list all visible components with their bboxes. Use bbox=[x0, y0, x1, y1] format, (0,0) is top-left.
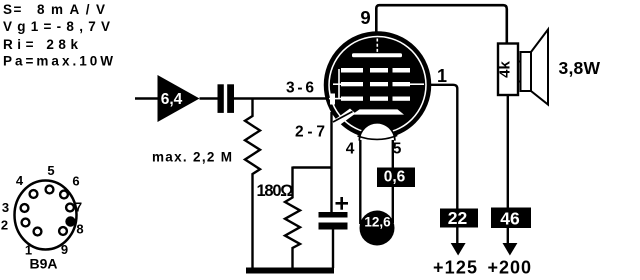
heater loop dome bbox=[359, 123, 395, 141]
capacitor C1 coupling bbox=[218, 84, 224, 113]
wire pin 9 anode to output transformer bbox=[376, 5, 507, 43]
svg-text:9: 9 bbox=[61, 242, 68, 257]
base pin 9 bbox=[59, 227, 67, 235]
wire heater pin 5 bbox=[392, 140, 394, 223]
base pin 8 (marked) bbox=[65, 216, 75, 226]
svg-text:2-7: 2-7 bbox=[295, 124, 325, 141]
current box 22 mA bbox=[440, 209, 478, 228]
cathode lead gap bbox=[334, 109, 356, 126]
signal source triangle 6,4 V input bbox=[158, 75, 200, 122]
grid g2 lead to pin 1 bbox=[410, 83, 424, 85]
svg-text:4: 4 bbox=[346, 141, 355, 158]
svg-text:5: 5 bbox=[393, 141, 402, 158]
svg-text:5: 5 bbox=[47, 163, 54, 178]
speaker cone bbox=[531, 30, 548, 105]
wire capacitor to ground bbox=[332, 230, 334, 269]
base pin 6 bbox=[60, 191, 68, 199]
polarity + sign bbox=[336, 197, 349, 210]
speaker driver bbox=[521, 52, 532, 91]
arrow to +200 bbox=[503, 243, 518, 256]
tube envelope thin edge across dome bbox=[358, 135, 398, 139]
anode lead to pin 9 (dashed) bbox=[376, 39, 378, 54]
speaker stubs bbox=[518, 61, 521, 63]
svg-text:9: 9 bbox=[360, 7, 370, 28]
svg-text:S=: S= bbox=[3, 2, 23, 17]
heater current box 0,6 bbox=[377, 168, 415, 188]
svg-text:2: 2 bbox=[1, 218, 8, 233]
wire heater pin 4 bbox=[359, 140, 361, 224]
base pin 3 bbox=[21, 204, 29, 212]
grid side link bbox=[338, 69, 340, 99]
base pin 7 bbox=[66, 204, 74, 212]
svg-text:4: 4 bbox=[16, 173, 24, 188]
svg-text:6: 6 bbox=[72, 174, 79, 189]
ground bus bbox=[246, 268, 334, 274]
base pin 4 bbox=[30, 190, 38, 198]
svg-text:12,6: 12,6 bbox=[364, 215, 391, 230]
grid g1 lead exiting left bbox=[330, 94, 335, 105]
resistor R2 cathode 180 ohm bbox=[285, 167, 300, 269]
grid g3 row dashes bbox=[341, 68, 410, 73]
svg-text:8: 8 bbox=[76, 222, 83, 237]
wire triangle to coupling capacitor bbox=[200, 97, 218, 99]
heater voltage circle 12,6 bbox=[360, 211, 395, 246]
cathode bar bbox=[352, 109, 404, 114]
grid g1 row dashes bbox=[341, 97, 410, 101]
tube V1 electrode block bbox=[330, 37, 425, 132]
svg-text:3,8W: 3,8W bbox=[559, 58, 601, 78]
current box 46 mA bbox=[491, 208, 531, 229]
wire transformer to +200 bbox=[507, 95, 509, 244]
wire input lead bbox=[135, 97, 158, 99]
svg-text:0,6: 0,6 bbox=[384, 169, 406, 186]
capacitor C2 cathode bypass bbox=[319, 212, 348, 218]
svg-text:4k: 4k bbox=[497, 61, 514, 78]
tube V1 envelope circle bbox=[326, 34, 429, 137]
svg-text:Vg1=-8,7V: Vg1=-8,7V bbox=[3, 19, 110, 34]
svg-text:6,4: 6,4 bbox=[161, 91, 183, 108]
svg-text:180Ω: 180Ω bbox=[257, 182, 294, 200]
wire pin 1 screen grid to +125 bbox=[429, 85, 457, 244]
base pin 1 bbox=[34, 228, 42, 236]
svg-text:B9A: B9A bbox=[29, 256, 57, 272]
wire capacitor to grid pins 3-6 bbox=[234, 97, 327, 99]
svg-text:1: 1 bbox=[437, 66, 447, 86]
svg-text:22: 22 bbox=[448, 208, 468, 228]
base pin 5 bbox=[46, 186, 54, 194]
svg-text:+125: +125 bbox=[433, 258, 477, 278]
svg-text:7: 7 bbox=[75, 200, 82, 215]
svg-text:46: 46 bbox=[500, 209, 520, 229]
output transformer 4k bbox=[498, 44, 518, 96]
wire cathode branch to R2 bbox=[293, 166, 332, 168]
svg-text:+200: +200 bbox=[488, 258, 532, 278]
svg-text:Pa=max.10W: Pa=max.10W bbox=[3, 54, 113, 69]
base pin 2 bbox=[22, 219, 30, 227]
tube base B9A outline bbox=[15, 181, 77, 250]
svg-text:3: 3 bbox=[2, 200, 9, 215]
resistor R1 grid leak max. 2,2 M bbox=[245, 99, 260, 269]
wire cathode pins 2-7 down bbox=[330, 112, 332, 213]
cathode lead bbox=[333, 112, 353, 123]
arrow to +125 bbox=[451, 243, 466, 256]
grid g2 row dashes bbox=[341, 82, 410, 86]
svg-text:3-6: 3-6 bbox=[286, 80, 314, 97]
anode plate bar bbox=[352, 53, 402, 57]
